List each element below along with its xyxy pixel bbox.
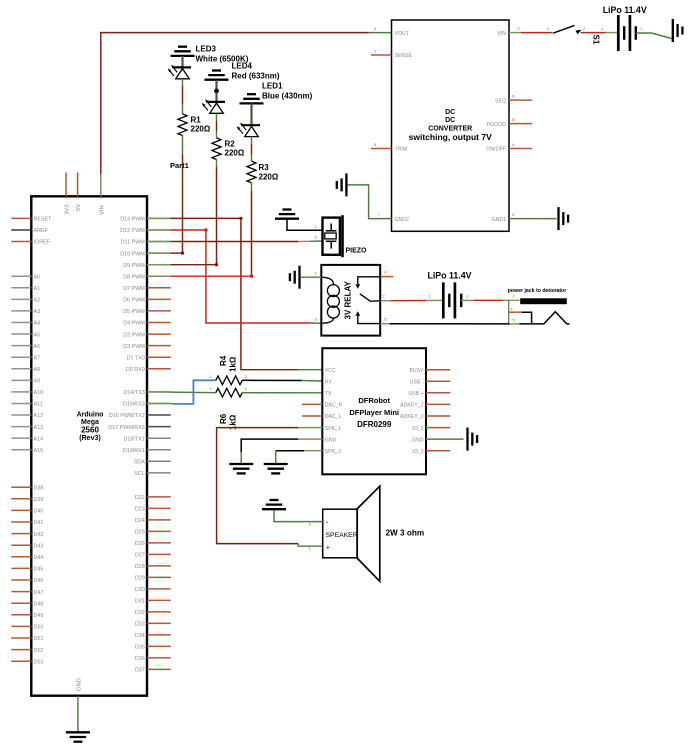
pin D18/TX1 bbox=[124, 436, 171, 442]
svg-text:D30: D30 bbox=[135, 587, 145, 593]
svg-text:DFR0299: DFR0299 bbox=[357, 420, 392, 429]
pin IO_2 (DFPlayer right) bbox=[412, 426, 450, 432]
svg-text:ON/OFF: ON/OFF bbox=[486, 147, 506, 153]
pin D19/RX1 bbox=[123, 448, 171, 454]
svg-text:D33: D33 bbox=[135, 622, 145, 628]
svg-text:D34: D34 bbox=[135, 633, 145, 639]
svg-text:2: 2 bbox=[583, 27, 585, 31]
svg-text:D12 PWM: D12 PWM bbox=[120, 228, 145, 234]
piezo element PIEZO bbox=[323, 215, 344, 257]
svg-text:A2: A2 bbox=[34, 298, 41, 304]
label R6 1kohm bbox=[219, 413, 238, 430]
svg-text:PIEZO: PIEZO bbox=[346, 248, 368, 255]
wire relay pin5 to jack sleeve bbox=[380, 312, 569, 324]
IC U2 DC-DC converter body bbox=[392, 20, 510, 231]
pin A8 bbox=[11, 367, 40, 373]
svg-text:GND: GND bbox=[76, 678, 82, 691]
svg-text:D31: D31 bbox=[135, 599, 145, 605]
pin A12 bbox=[11, 413, 43, 419]
svg-text:AREF: AREF bbox=[34, 228, 49, 234]
pin D11 PWM bbox=[121, 240, 171, 246]
wire VIN to DC converter VOUT bbox=[101, 33, 392, 197]
svg-text:2: 2 bbox=[518, 27, 520, 31]
svg-text:ADKEY_1: ADKEY_1 bbox=[400, 414, 423, 420]
svg-text:3: 3 bbox=[512, 213, 514, 217]
svg-text:D7 PWM: D7 PWM bbox=[123, 286, 145, 292]
ground (rotated, pointing right) at DC GND1 bbox=[559, 207, 569, 230]
svg-text:2: 2 bbox=[315, 236, 317, 240]
wire LED4 to R2 bbox=[216, 113, 218, 137]
pin SEQ bbox=[495, 95, 532, 105]
pin PGOOD bbox=[487, 118, 532, 128]
wire GND2 to ground bbox=[348, 185, 392, 219]
pin SDA bbox=[134, 460, 171, 466]
pin D28 bbox=[135, 564, 171, 570]
pin D9 PWM bbox=[123, 263, 171, 269]
svg-text:5: 5 bbox=[374, 143, 376, 147]
svg-text:D6 PWM: D6 PWM bbox=[123, 298, 145, 304]
pin stub DAC_L bbox=[302, 415, 322, 417]
junction dot D13 corner bbox=[239, 217, 242, 220]
relay coil bbox=[321, 277, 339, 323]
svg-text:A10: A10 bbox=[34, 390, 44, 396]
svg-text:3V3: 3V3 bbox=[65, 205, 71, 215]
pin D6 PWM bbox=[123, 298, 171, 304]
svg-text:1: 1 bbox=[374, 49, 376, 53]
pin IOREF bbox=[11, 240, 50, 246]
pin D25 bbox=[135, 530, 171, 536]
svg-text:D36: D36 bbox=[135, 656, 145, 662]
wire LED3 to R1 bbox=[182, 79, 184, 114]
svg-text:1: 1 bbox=[309, 547, 311, 551]
pin A11 bbox=[11, 402, 42, 408]
svg-text:power jack to detonator: power jack to detonator bbox=[508, 288, 567, 294]
svg-text:3: 3 bbox=[309, 522, 311, 526]
svg-text:D24: D24 bbox=[135, 518, 145, 524]
junction dot D8 end bbox=[250, 275, 253, 278]
pin SENSE bbox=[371, 49, 413, 59]
svg-text:A9: A9 bbox=[34, 379, 41, 385]
junction dot D10 end bbox=[181, 251, 184, 254]
pin D10 PWM bbox=[120, 251, 171, 257]
wire battery to ground bbox=[636, 27, 672, 38]
svg-text:4: 4 bbox=[385, 271, 387, 275]
label R2 220ohm bbox=[225, 139, 245, 157]
label LED4 bbox=[232, 62, 280, 81]
wire relay common to battery bbox=[380, 295, 443, 301]
pin D41 bbox=[11, 520, 43, 526]
wire R3 down to D8 bbox=[251, 183, 253, 276]
svg-text:PGOOD: PGOOD bbox=[487, 122, 507, 128]
svg-text:switching, output 7V: switching, output 7V bbox=[409, 132, 492, 142]
svg-text:+: + bbox=[326, 545, 330, 552]
wire D12 to relay coil bbox=[147, 230, 321, 323]
wire D13 to DFPlayer VCC bbox=[147, 218, 322, 369]
svg-text:IOREF: IOREF bbox=[34, 240, 51, 246]
svg-text:2560: 2560 bbox=[81, 426, 99, 435]
wire D11 to piezo bbox=[147, 240, 323, 243]
pin D15/RX3 bbox=[123, 402, 171, 408]
pin A2 bbox=[11, 298, 40, 304]
pin D53 bbox=[11, 659, 43, 665]
svg-text:D51: D51 bbox=[34, 636, 44, 642]
svg-text:D18/TX1: D18/TX1 bbox=[124, 436, 145, 442]
svg-text:GND1: GND1 bbox=[492, 217, 507, 223]
svg-text:D11 PWM: D11 PWM bbox=[121, 240, 146, 246]
label DC DC CONVERTER switching output 7V bbox=[409, 109, 492, 142]
svg-text:1: 1 bbox=[466, 294, 468, 298]
pin D34 bbox=[135, 633, 171, 639]
svg-text:D22: D22 bbox=[135, 495, 145, 501]
junction dot D12 corner bbox=[204, 228, 207, 231]
svg-text:DFPlayer Mini: DFPlayer Mini bbox=[349, 408, 399, 417]
pin D2 PWM bbox=[123, 332, 171, 338]
wire R4 to DFPlayer RX bbox=[242, 379, 322, 382]
svg-text:D17 PWM/RX2: D17 PWM/RX2 bbox=[108, 425, 145, 431]
svg-text:LiPo 11.4V: LiPo 11.4V bbox=[427, 270, 471, 280]
label LED1 bbox=[262, 82, 313, 101]
svg-text:1: 1 bbox=[429, 295, 431, 299]
label LED3 bbox=[196, 45, 249, 64]
svg-text:2: 2 bbox=[245, 375, 247, 379]
pin D40 bbox=[11, 509, 43, 515]
svg-text:R4: R4 bbox=[219, 355, 228, 366]
svg-text:D39: D39 bbox=[34, 497, 44, 503]
wire SPK_2 to ground bbox=[276, 451, 323, 464]
svg-text:SPEAKER: SPEAKER bbox=[326, 532, 358, 539]
wire relay pin1 to ground bbox=[301, 276, 321, 278]
pin D31 bbox=[135, 599, 171, 605]
svg-text:D42: D42 bbox=[34, 532, 44, 538]
LED LED4 Red (633nm) bbox=[202, 99, 225, 113]
ground (rotated, pointing left) at relay coil top bbox=[290, 266, 300, 289]
ground (rotated, pointing right) top right after battery bbox=[673, 19, 683, 42]
svg-text:SDA: SDA bbox=[134, 460, 145, 466]
label R1 220ohm bbox=[191, 115, 211, 133]
pin D36 bbox=[135, 656, 171, 662]
wire GND1 to ground bbox=[509, 213, 557, 219]
wire LED1 to R3 bbox=[251, 137, 253, 162]
pin A6 bbox=[11, 344, 40, 350]
pin stub DAC_R bbox=[302, 403, 322, 405]
ground below DFPlayer GND bbox=[229, 464, 253, 473]
wire D9 to LED4 column bbox=[147, 264, 217, 266]
pin A1 bbox=[11, 286, 40, 292]
pin D32 bbox=[135, 610, 171, 616]
svg-text:1: 1 bbox=[513, 295, 515, 299]
svg-text:D53: D53 bbox=[34, 659, 44, 665]
svg-text:DC: DC bbox=[445, 117, 455, 124]
pin D48 bbox=[11, 601, 43, 607]
wire DC VIN to switch S1 bbox=[509, 27, 553, 33]
pin D7 PWM bbox=[123, 286, 171, 292]
svg-text:D47: D47 bbox=[34, 590, 44, 596]
pin A14 bbox=[11, 436, 43, 442]
pin SCL bbox=[134, 471, 171, 477]
svg-text:1: 1 bbox=[601, 27, 603, 31]
svg-text:220Ω: 220Ω bbox=[225, 149, 245, 158]
pin A4 bbox=[11, 321, 40, 327]
svg-text:D38: D38 bbox=[34, 485, 44, 491]
svg-text:SCL: SCL bbox=[134, 471, 145, 477]
wire speaker minus to ground bbox=[274, 510, 323, 521]
resistor R2 220 bbox=[212, 138, 221, 160]
pin D51 bbox=[11, 636, 43, 642]
svg-text:-: - bbox=[326, 519, 329, 526]
label R3 220ohm bbox=[259, 163, 279, 181]
pin D22 bbox=[135, 495, 171, 501]
svg-text:1: 1 bbox=[547, 27, 549, 31]
pin stub relay pin4 bbox=[380, 276, 393, 278]
svg-text:GND: GND bbox=[325, 437, 337, 443]
svg-text:A1: A1 bbox=[34, 286, 41, 292]
svg-text:D15/RX3: D15/RX3 bbox=[123, 402, 145, 408]
pin D24 bbox=[135, 518, 171, 524]
pin A0 bbox=[11, 274, 40, 280]
svg-text:D41: D41 bbox=[34, 520, 44, 526]
pin D39 bbox=[11, 497, 43, 503]
wire battery to power jack tip bbox=[461, 294, 519, 300]
svg-text:2: 2 bbox=[383, 295, 385, 299]
svg-text:D49: D49 bbox=[34, 613, 44, 619]
svg-text:R2: R2 bbox=[225, 139, 236, 148]
pin ADKEY_2 (DFPlayer right) bbox=[400, 403, 450, 409]
pin RESET bbox=[11, 217, 52, 223]
junction node on LED4 cathode wire bbox=[214, 88, 219, 93]
svg-text:DAC_R: DAC_R bbox=[325, 403, 343, 409]
svg-text:LED3: LED3 bbox=[196, 45, 217, 54]
svg-text:DAC_L: DAC_L bbox=[325, 414, 342, 420]
wire D14/TX3 to R6 bbox=[147, 391, 216, 394]
ground (inverted) above piezo bbox=[275, 210, 299, 219]
svg-text:D4 PWM: D4 PWM bbox=[123, 321, 145, 327]
pin D17 PWM/RX2 bbox=[108, 425, 171, 431]
pin D16 PWM/TX2 bbox=[109, 413, 171, 419]
svg-text:220Ω: 220Ω bbox=[191, 125, 211, 134]
wire jack pins interconnect bbox=[508, 300, 510, 324]
svg-text:D5 PWM: D5 PWM bbox=[123, 309, 145, 315]
relay K1 3V RELAY body bbox=[321, 265, 380, 336]
pin D42 bbox=[11, 532, 43, 538]
svg-text:1: 1 bbox=[315, 225, 317, 229]
pin D13 PWM bbox=[120, 217, 171, 223]
pin D0 RX0 bbox=[126, 367, 171, 373]
pin D3 PWM bbox=[123, 344, 171, 350]
svg-text:1kΩ: 1kΩ bbox=[229, 356, 238, 372]
svg-text:D25: D25 bbox=[135, 530, 145, 536]
pin D29 bbox=[135, 576, 171, 582]
svg-text:D10 PWM: D10 PWM bbox=[120, 251, 145, 257]
wire SPK_1 to speaker + bbox=[217, 428, 323, 547]
svg-text:D50: D50 bbox=[34, 625, 44, 631]
IC U1 Arduino Mega 2560 body bbox=[31, 196, 147, 695]
pin A10 bbox=[11, 390, 43, 396]
LED LED1 Blue (430nm) bbox=[237, 123, 260, 137]
svg-text:RESET: RESET bbox=[34, 217, 53, 223]
svg-text:A3: A3 bbox=[34, 309, 41, 315]
svg-text:IO_1: IO_1 bbox=[412, 449, 423, 455]
label Arduino Mega 2560 (Rev3) bbox=[77, 412, 104, 443]
pin D1 TX0 bbox=[127, 355, 171, 361]
svg-text:D1 TX0: D1 TX0 bbox=[127, 355, 145, 361]
svg-text:R1: R1 bbox=[191, 115, 202, 124]
svg-text:5: 5 bbox=[513, 318, 515, 322]
wire DFPlayer GND to ground bbox=[241, 439, 322, 463]
pin D37 bbox=[135, 668, 171, 674]
svg-text:R3: R3 bbox=[259, 163, 270, 172]
svg-text:D23: D23 bbox=[135, 507, 145, 513]
pin A15 bbox=[11, 448, 43, 454]
pin D33 bbox=[135, 622, 171, 628]
svg-text:LiPo 11.4V: LiPo 11.4V bbox=[603, 5, 647, 15]
svg-text:GND: GND bbox=[412, 437, 424, 443]
svg-text:Part1: Part1 bbox=[170, 161, 189, 170]
svg-text:D48: D48 bbox=[34, 601, 44, 607]
svg-text:Blue (430nm): Blue (430nm) bbox=[262, 92, 313, 101]
svg-text:RX: RX bbox=[325, 380, 333, 386]
label DFRobot DFPlayer Mini DFR0299 bbox=[349, 396, 399, 429]
svg-text:SPK_1: SPK_1 bbox=[325, 426, 341, 432]
speaker SPEAKER body bbox=[323, 486, 380, 581]
svg-text:D40: D40 bbox=[34, 509, 44, 515]
pin D43 bbox=[11, 543, 43, 549]
svg-text:A0: A0 bbox=[34, 274, 41, 280]
svg-text:3V RELAY: 3V RELAY bbox=[344, 280, 353, 319]
pin AREF bbox=[11, 228, 48, 234]
svg-text:1: 1 bbox=[210, 375, 212, 379]
pin GND (Arduino bottom) bbox=[76, 678, 82, 691]
wire Arduino GND to ground bbox=[77, 696, 79, 733]
svg-text:SEQ: SEQ bbox=[495, 98, 506, 104]
svg-text:Red (633nm): Red (633nm) bbox=[232, 72, 280, 81]
svg-text:D35: D35 bbox=[135, 645, 145, 651]
svg-text:A14: A14 bbox=[34, 436, 44, 442]
svg-text:BUSY: BUSY bbox=[409, 368, 424, 374]
wire R6 to DFPlayer TX bbox=[242, 392, 322, 394]
pin D46 bbox=[11, 578, 43, 584]
svg-text:1: 1 bbox=[640, 27, 642, 31]
svg-text:D32: D32 bbox=[135, 610, 145, 616]
pin VIN bbox=[99, 173, 105, 216]
label R4 1kohm bbox=[219, 355, 238, 372]
svg-text:D43: D43 bbox=[34, 543, 44, 549]
ground (inverted) above LED1 bbox=[240, 94, 264, 103]
pin A13 bbox=[11, 425, 43, 431]
svg-text:ADKEY_2: ADKEY_2 bbox=[400, 403, 423, 409]
IC U3 DFPlayer Mini body bbox=[322, 348, 426, 474]
ground (rotated, pointing right) at DFPlayer GND right bbox=[468, 428, 478, 451]
connector power jack to detonator bbox=[508, 288, 567, 304]
wire R2 down to D9 bbox=[216, 160, 218, 265]
svg-text:D19/RX1: D19/RX1 bbox=[123, 448, 145, 454]
wire D15/RX3 to R4 (blue) bbox=[147, 380, 216, 404]
pin D30 bbox=[135, 587, 171, 593]
pin 3V3 bbox=[65, 173, 71, 216]
svg-text:D8 PWM: D8 PWM bbox=[123, 274, 145, 280]
ground (rotated, pointing left) at DC GND2 bbox=[337, 173, 347, 196]
svg-text:D13 PWM: D13 PWM bbox=[120, 217, 145, 223]
pin D52 bbox=[11, 648, 43, 654]
pin D12 PWM bbox=[120, 228, 171, 234]
svg-text:D52: D52 bbox=[34, 648, 44, 654]
svg-text:A4: A4 bbox=[34, 321, 41, 327]
pin GND (DFPlayer right) bbox=[412, 437, 464, 443]
svg-text:D29: D29 bbox=[135, 576, 145, 582]
svg-text:D45: D45 bbox=[34, 567, 44, 573]
wire jack pin4 bbox=[509, 312, 532, 324]
junction dot D9 end bbox=[215, 263, 218, 266]
pin D35 bbox=[135, 645, 171, 651]
pin D45 bbox=[11, 567, 43, 573]
svg-text:7: 7 bbox=[378, 213, 380, 217]
svg-text:D27: D27 bbox=[135, 553, 145, 559]
svg-text:4: 4 bbox=[511, 308, 513, 312]
svg-text:D44: D44 bbox=[34, 555, 44, 561]
svg-text:A7: A7 bbox=[34, 355, 41, 361]
ground below DFPlayer SPK_2 bbox=[264, 464, 288, 473]
pin A9 bbox=[11, 379, 40, 385]
svg-text:R6: R6 bbox=[219, 413, 228, 424]
svg-text:TX: TX bbox=[325, 391, 332, 397]
ground (inverted) above LED4 bbox=[205, 71, 229, 80]
wire piezo pin1 to ground bbox=[287, 220, 323, 231]
svg-text:Arduino: Arduino bbox=[77, 412, 104, 419]
svg-text:GND2: GND2 bbox=[395, 217, 410, 223]
wire ground to LED4 bbox=[215, 80, 217, 102]
pin D14/TX3 bbox=[124, 390, 171, 396]
svg-text:9: 9 bbox=[512, 95, 514, 99]
svg-text:VOUT: VOUT bbox=[395, 31, 410, 37]
pin D38 bbox=[11, 485, 43, 491]
svg-text:A5: A5 bbox=[34, 332, 41, 338]
pin D44 bbox=[11, 555, 43, 561]
ground (inverted) above LED3 bbox=[171, 47, 195, 56]
svg-text:A15: A15 bbox=[34, 448, 44, 454]
svg-text:SPK_2: SPK_2 bbox=[325, 449, 341, 455]
wire D8 to LED1 column bbox=[147, 275, 252, 277]
svg-text:D46: D46 bbox=[34, 578, 44, 584]
svg-text:LED1: LED1 bbox=[262, 82, 283, 91]
pin D26 bbox=[135, 541, 171, 547]
svg-text:VCC: VCC bbox=[325, 368, 336, 374]
wire ground to LED3 bbox=[181, 56, 183, 68]
svg-text:D14/TX3: D14/TX3 bbox=[124, 390, 145, 396]
svg-text:A11: A11 bbox=[34, 402, 43, 408]
pin ADKEY_1 (DFPlayer right) bbox=[400, 414, 450, 420]
pin BUSY (DFPlayer right) bbox=[409, 368, 450, 374]
svg-text:IO_2: IO_2 bbox=[412, 426, 423, 432]
svg-text:DC: DC bbox=[445, 109, 455, 116]
svg-text:TRIM: TRIM bbox=[395, 147, 408, 153]
svg-text:4: 4 bbox=[374, 27, 376, 31]
svg-text:D2 PWM: D2 PWM bbox=[123, 332, 145, 338]
pin D27 bbox=[135, 553, 171, 559]
svg-text:10: 10 bbox=[511, 118, 515, 122]
svg-text:D3 PWM: D3 PWM bbox=[123, 344, 145, 350]
resistor R6 1k bbox=[216, 388, 242, 397]
battery LiPo 11.4V top bbox=[618, 15, 636, 51]
pin D8 PWM bbox=[123, 274, 171, 280]
svg-text:D28: D28 bbox=[135, 564, 145, 570]
pin 5V bbox=[76, 173, 82, 212]
svg-text:220Ω: 220Ω bbox=[259, 172, 279, 181]
pin A5 bbox=[11, 332, 40, 338]
pin A7 bbox=[11, 355, 40, 361]
svg-text:D9 PWM: D9 PWM bbox=[123, 263, 145, 269]
svg-text:1: 1 bbox=[210, 387, 212, 391]
resistor R1 220 bbox=[178, 114, 187, 136]
svg-text:A12: A12 bbox=[34, 413, 44, 419]
